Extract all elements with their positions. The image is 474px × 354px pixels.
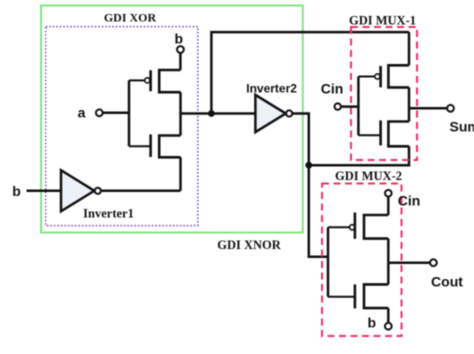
- wire Sum out: [409, 107, 447, 110]
- node Cin terminal MUX-2: [385, 190, 392, 197]
- node Sum terminal: [447, 105, 454, 112]
- transistor N2 gate bar: [379, 120, 382, 145]
- wire b to Inverter1: [27, 190, 62, 193]
- node a terminal: [96, 109, 103, 116]
- svg-text:GDI XOR: GDI XOR: [104, 11, 157, 25]
- transistor P2 gate bar: [379, 66, 382, 87]
- wire N1 source to out: [179, 114, 182, 136]
- transistor P1 gate bar: [149, 70, 152, 91]
- wire MUX-1 top in: [408, 32, 411, 65]
- node junction XOR out: [208, 110, 215, 117]
- transistor N1 gate lead: [129, 145, 151, 147]
- inverter U1 bubble: [95, 188, 101, 194]
- wire Cin to gates MUX-1: [341, 105, 359, 108]
- svg-text:b: b: [12, 183, 21, 199]
- svg-text:a: a: [78, 105, 86, 121]
- inverter U1 triangle: [61, 170, 94, 211]
- transistor P3 gate bubble: [350, 225, 355, 230]
- transistor P1 channel: [159, 70, 180, 92]
- transistor P2 channel: [388, 65, 409, 87]
- wire N3 drain to b: [387, 308, 390, 323]
- wire Cin to P3 source: [387, 197, 390, 216]
- transistor P1 gate bubble: [145, 78, 150, 83]
- transistor P2 gate lead: [358, 76, 375, 78]
- wire gate common vertical MUX-2: [327, 227, 330, 296]
- transistor N3 channel: [364, 284, 388, 308]
- wire a to gates: [103, 112, 129, 115]
- green outer box GDI XNOR: [41, 6, 303, 233]
- svg-text:b: b: [368, 315, 377, 331]
- wire b to P1 source: [179, 53, 182, 70]
- node b terminal top: [177, 46, 184, 53]
- wire junction to MUX-1 N2 drain: [309, 146, 409, 165]
- wire gate common vertical XOR: [128, 80, 131, 146]
- svg-text:b: b: [175, 31, 184, 47]
- transistor P1 gate lead: [129, 79, 145, 81]
- transistor N2 channel: [388, 122, 409, 147]
- transistor P3 gate lead: [328, 226, 350, 228]
- wire junction up and right to MUX-1: [211, 32, 409, 113]
- svg-text:Cin: Cin: [398, 193, 421, 209]
- transistor P3 gate bar: [354, 213, 357, 239]
- inverter U2 bubble: [286, 110, 292, 116]
- wire P3 drain to Cout node: [387, 239, 390, 263]
- svg-text:Cout: Cout: [431, 274, 463, 290]
- wire N3 source to Cout node: [387, 263, 390, 285]
- wire P1 drain to out: [179, 92, 182, 113]
- wire N1 drain down: [179, 157, 182, 191]
- transistor N3 gate lead: [328, 296, 355, 298]
- node b terminal MUX-2: [385, 323, 392, 330]
- inverter U2 triangle: [255, 95, 285, 132]
- wire XOR output row: [181, 112, 256, 115]
- svg-text:Inverter1: Inverter1: [83, 207, 134, 221]
- svg-text:GDI MUX-1: GDI MUX-1: [349, 14, 416, 28]
- purple dotted box GDI XOR: [46, 27, 198, 226]
- wire Inverter1 out: [101, 190, 181, 193]
- transistor N1 channel: [159, 136, 180, 158]
- svg-text:GDI MUX-2: GDI MUX-2: [335, 169, 402, 183]
- svg-text:Cin: Cin: [321, 81, 344, 97]
- pink dashed box GDI MUX-2: [322, 184, 402, 337]
- transistor P2 gate bubble: [375, 74, 380, 79]
- wire N2 source to Sum node: [408, 108, 411, 121]
- transistor N1 gate bar: [149, 134, 152, 157]
- transistor N2 gate lead: [358, 134, 380, 136]
- node Cin terminal MUX-1: [335, 103, 341, 109]
- svg-text:GDI XNOR: GDI XNOR: [217, 238, 282, 252]
- wire gate common vertical MUX-1: [357, 77, 360, 136]
- transistor P3 channel: [364, 215, 388, 239]
- wire Cout out: [388, 261, 430, 264]
- svg-text:Inverter2: Inverter2: [246, 82, 297, 96]
- transistor N3 gate bar: [354, 284, 357, 308]
- pink dashed box GDI MUX-1: [351, 27, 417, 160]
- node junction to MUX-1: [305, 162, 312, 169]
- svg-text:Sum: Sum: [450, 119, 474, 135]
- wire P2 drain to Sum node: [408, 87, 411, 108]
- node Cout terminal: [430, 259, 437, 266]
- wire Inverter2 out right and down: [292, 114, 328, 257]
